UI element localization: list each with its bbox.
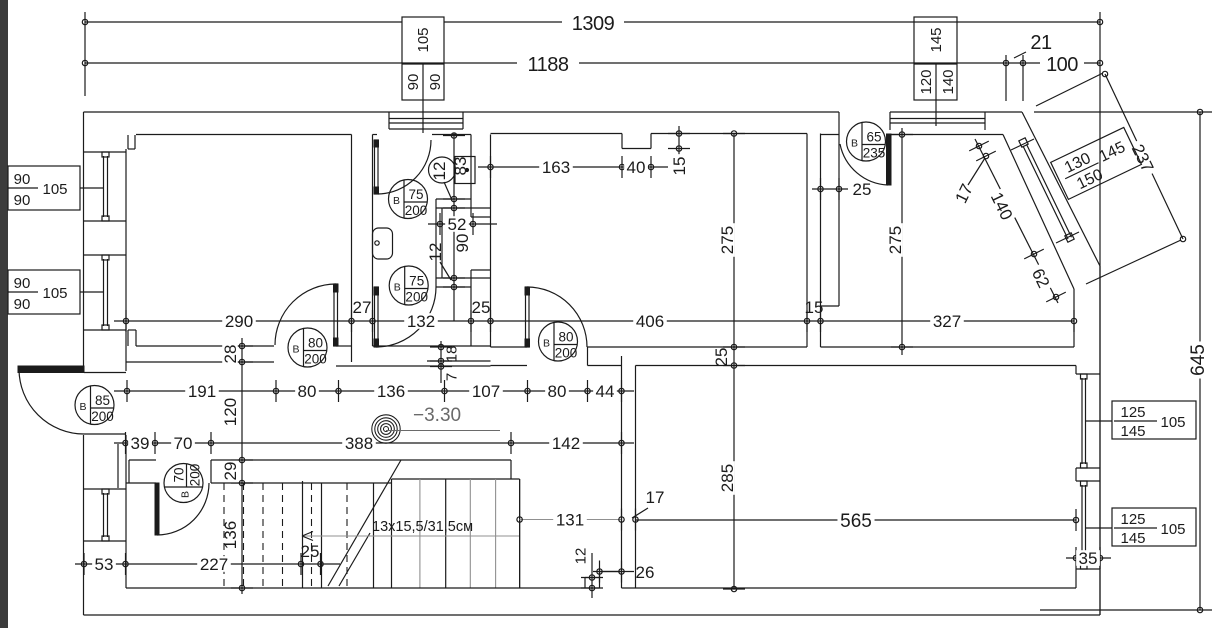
door B80-2 leaf	[526, 287, 530, 347]
diagonal window glazing	[1023, 146, 1068, 239]
svg-text:25: 25	[853, 180, 872, 199]
door label B75/200 upper	[389, 180, 428, 219]
door label B65/235	[847, 122, 886, 161]
wash niche walls	[436, 198, 471, 200]
svg-text:105: 105	[415, 27, 432, 52]
sink	[373, 228, 393, 259]
corridor west wall x=587.5 jamb	[587, 347, 589, 366]
svg-text:27: 27	[353, 298, 372, 317]
svg-text:70: 70	[172, 467, 187, 482]
corridor east walls	[621, 356, 623, 588]
dims 18/7 at x=441	[440, 341, 442, 383]
outer wall diagonal NE	[1022, 112, 1100, 266]
svg-text:80: 80	[548, 382, 567, 401]
svg-text:120: 120	[221, 398, 240, 426]
svg-text:44: 44	[596, 382, 615, 401]
bottom-right room top inner face	[636, 365, 1077, 367]
wall niche line at hall SW	[117, 444, 119, 488]
outer wall right	[1099, 266, 1101, 615]
svg-text:145: 145	[1120, 530, 1145, 547]
dim 275 right room	[901, 128, 903, 355]
dim 15 vertical at notch	[678, 126, 680, 158]
stair landing solid treads	[302, 481, 304, 588]
middle room west face	[490, 135, 492, 348]
right window 1	[1076, 373, 1100, 375]
top-center window label box 105/90/90	[402, 17, 444, 100]
door label B70/200 rotated	[164, 464, 203, 503]
room1 top inner face	[136, 134, 352, 136]
svg-text:12: 12	[430, 162, 449, 181]
stair walking line with arrow	[302, 535, 520, 537]
room1 south wall faces + door opening	[136, 345, 274, 347]
middle room south wall faces	[491, 346, 528, 348]
outer wall left lower	[83, 435, 85, 615]
dim 12 pier	[591, 553, 593, 598]
label 1188	[517, 54, 579, 73]
svg-text:90: 90	[14, 192, 31, 209]
outer wall top	[84, 111, 840, 113]
svg-text:28: 28	[221, 345, 240, 364]
svg-text:B: B	[79, 401, 86, 413]
svg-text:85: 85	[95, 393, 110, 408]
dim line 1309	[85, 21, 402, 23]
svg-text:90: 90	[14, 296, 31, 313]
leader line box1 to window	[80, 187, 103, 189]
left wall inner face	[125, 149, 127, 371]
svg-text:B: B	[851, 138, 858, 150]
svg-text:140: 140	[940, 69, 957, 94]
svg-text:105: 105	[42, 181, 67, 198]
svg-text:17: 17	[646, 488, 665, 507]
hall dim chain 191/80/136/107/80/44 y=391	[114, 390, 634, 392]
svg-text:25: 25	[712, 348, 731, 367]
middle room east wall (15cm)	[806, 134, 808, 348]
vertical dim chain 28/120/29/136 x=242	[241, 338, 243, 594]
diagonal window sills	[1011, 139, 1034, 150]
door B75-upper leaf	[375, 140, 379, 194]
svg-text:65: 65	[866, 130, 881, 145]
dim 237 diagonal	[1105, 74, 1183, 239]
inner diagonal wall face NE	[1003, 135, 1074, 290]
svg-text:35: 35	[1079, 549, 1098, 568]
svg-text:227: 227	[200, 555, 228, 574]
svg-text:−3.30: −3.30	[413, 405, 461, 426]
svg-text:145: 145	[1120, 423, 1145, 440]
svg-text:285: 285	[718, 464, 737, 492]
svg-text:15: 15	[670, 157, 689, 176]
svg-text:90: 90	[427, 74, 444, 91]
svg-text:105: 105	[42, 285, 67, 302]
door B65 leaf	[887, 134, 892, 185]
svg-text:26: 26	[636, 563, 655, 582]
connector box to wall	[422, 100, 424, 133]
dim 35	[1066, 557, 1111, 559]
svg-text:125: 125	[1120, 404, 1145, 421]
svg-text:275: 275	[886, 226, 905, 254]
svg-text:200: 200	[188, 464, 203, 487]
ext lines for 645	[1034, 111, 1212, 113]
svg-text:275: 275	[718, 226, 737, 254]
door B80-1 leaf	[334, 284, 338, 346]
jambs and step at stair wall	[128, 460, 130, 483]
hall dim chain 39/70/388/142 y=443	[114, 442, 634, 444]
notch at room1 NW corner	[127, 135, 129, 149]
svg-text:70: 70	[174, 434, 193, 453]
svg-text:136: 136	[377, 382, 405, 401]
door B70 leaf	[155, 483, 159, 535]
svg-text:B: B	[394, 282, 401, 294]
notch at room1 SW corner	[128, 329, 136, 331]
dim 163/40 line	[478, 166, 668, 168]
svg-text:290: 290	[225, 312, 253, 331]
outer wall bottom	[84, 614, 1101, 616]
svg-text:327: 327	[933, 312, 961, 331]
stair flight 1 dashed treads	[223, 483, 225, 588]
dim 565 y=520	[636, 519, 1077, 521]
svg-text:1188: 1188	[527, 54, 568, 76]
bath south walls	[373, 345, 491, 347]
stair east face	[519, 479, 521, 588]
svg-text:200: 200	[405, 203, 428, 218]
leader window to box2	[1086, 527, 1112, 529]
svg-text:406: 406	[636, 312, 664, 331]
toilet tank	[455, 157, 475, 184]
middle room top inner face + notch	[491, 133, 623, 135]
left label box 1 (90/90 105)	[8, 166, 80, 210]
svg-text:25: 25	[301, 542, 320, 561]
svg-text:90: 90	[14, 275, 31, 292]
svg-text:235: 235	[863, 146, 886, 161]
svg-text:100: 100	[1046, 54, 1078, 76]
wall hall/stairs south face	[211, 482, 392, 484]
top wall window over entrance (105)	[389, 118, 463, 120]
dim 52 horizontal	[428, 223, 497, 225]
bath vertical dim chain 83/12/90/12	[453, 133, 455, 321]
toilet bowl	[429, 157, 456, 183]
outer wall left upper	[83, 112, 85, 371]
dim chain 17/140/62 along diagonal	[975, 139, 1058, 303]
svg-text:25: 25	[472, 298, 491, 317]
svg-text:200: 200	[91, 409, 114, 424]
dim 285 bottom-right room	[719, 461, 735, 495]
level underline	[386, 430, 500, 432]
ext vertical right boundary x=1100	[1099, 12, 1101, 615]
rotated label box 130/150 145	[1051, 127, 1142, 199]
label 100	[1040, 54, 1084, 73]
svg-text:80: 80	[558, 330, 573, 345]
wall hall/stairs north face	[129, 459, 156, 461]
svg-text:388: 388	[345, 434, 373, 453]
svg-text:105: 105	[1160, 414, 1185, 431]
vestibule east wall x=471	[470, 135, 472, 218]
svg-text:B: B	[180, 491, 192, 498]
svg-text:200: 200	[304, 352, 327, 367]
door B65 swing arc	[840, 144, 888, 185]
diagonal window end caps	[1019, 138, 1028, 147]
left label box 2 (90/90 105)	[8, 270, 80, 314]
dim 275 middle room	[733, 133, 735, 589]
right room west stub wall 25	[838, 135, 840, 307]
left wall window 1	[84, 151, 126, 153]
svg-text:142: 142	[552, 434, 580, 453]
right label box 1 (125/145 105)	[1112, 401, 1196, 439]
door B75-upper swing arc	[378, 140, 431, 194]
scanned page dark edge strip	[0, 0, 8, 628]
door B85 swing arc	[19, 369, 84, 434]
svg-text:645: 645	[1188, 344, 1209, 376]
svg-text:B: B	[393, 195, 400, 207]
svg-text:15: 15	[805, 298, 824, 317]
svg-text:191: 191	[188, 382, 216, 401]
svg-text:B: B	[543, 338, 550, 350]
svg-text:90: 90	[453, 234, 472, 253]
svg-text:200: 200	[405, 290, 428, 305]
svg-text:107: 107	[472, 382, 500, 401]
leader line box2 to window	[80, 291, 103, 293]
level mark spiral	[384, 427, 389, 432]
stair break line	[328, 460, 401, 586]
door B70 swing arc	[157, 483, 209, 535]
svg-text:40: 40	[627, 158, 646, 177]
svg-text:83: 83	[451, 157, 470, 176]
svg-text:131: 131	[556, 511, 584, 530]
svg-text:80: 80	[298, 382, 317, 401]
dim 142 gray 131 line y=519.5	[520, 519, 622, 521]
svg-text:200: 200	[555, 346, 578, 361]
door label B80/200 room1	[288, 328, 327, 367]
svg-text:52: 52	[448, 215, 467, 234]
door B85 leaf (open)	[18, 366, 84, 373]
svg-text:53: 53	[95, 555, 114, 574]
svg-text:12: 12	[572, 548, 589, 565]
dim line 645 vertical	[1199, 112, 1201, 610]
left wall window 2	[84, 254, 126, 256]
svg-text:7: 7	[443, 373, 460, 381]
dim 26 pier	[593, 571, 634, 573]
svg-text:75: 75	[409, 274, 424, 289]
niche side passages	[471, 216, 491, 218]
svg-text:39: 39	[131, 434, 150, 453]
dim chain 290/27/132/25/406/15/327 at y=321	[114, 320, 1074, 322]
stair flight 2 treads	[346, 483, 348, 588]
door B65 jamb	[838, 112, 840, 135]
svg-text:21: 21	[1030, 32, 1052, 54]
svg-text:75: 75	[408, 187, 423, 202]
svg-text:105: 105	[1160, 521, 1185, 538]
door B75-lower swing arc	[376, 287, 436, 347]
top-right window label box 145/120/140	[914, 17, 957, 100]
svg-text:B: B	[292, 344, 299, 356]
vestibule top inner face pieces	[432, 134, 471, 136]
label 1309	[562, 13, 624, 32]
pier at corridor bottom	[600, 571, 622, 573]
svg-text:565: 565	[840, 511, 872, 532]
svg-text:80: 80	[308, 336, 323, 351]
svg-text:163: 163	[542, 158, 570, 177]
svg-text:12: 12	[426, 243, 445, 262]
svg-text:132: 132	[407, 312, 435, 331]
right label box 2 (125/145 105)	[1112, 508, 1196, 546]
ext lines for 237	[1036, 73, 1103, 106]
svg-text:1309: 1309	[572, 13, 615, 35]
top-right window (890-985)	[890, 118, 985, 120]
svg-text:145: 145	[928, 27, 945, 52]
svg-text:125: 125	[1120, 511, 1145, 528]
svg-text:13x15,5/31,5cм: 13x15,5/31,5cм	[372, 519, 473, 535]
room1 east wall faces (bathroom west wall)	[351, 135, 353, 363]
right window 2	[1076, 480, 1100, 482]
door B85 jamb lines	[84, 372, 126, 374]
inner faces right: vertical + horizontal	[1073, 289, 1075, 347]
left wall window 3 (bottom-left room)	[84, 488, 126, 490]
ext lines for 21/100	[1005, 55, 1007, 101]
door B80-1 swing arc	[275, 284, 336, 345]
door label B80/200 hall	[539, 322, 578, 361]
svg-text:90: 90	[405, 74, 422, 91]
leader window to box1	[1086, 420, 1112, 422]
door label B85/200	[75, 386, 114, 425]
svg-text:90: 90	[14, 171, 31, 188]
dim 25 at entrance stub	[812, 188, 848, 190]
door label B75/200 lower	[389, 266, 428, 305]
ext line left top	[84, 12, 86, 96]
connector box to wall	[935, 100, 937, 126]
stair upper treads box	[392, 478, 520, 480]
svg-text:120: 120	[918, 69, 935, 94]
door B80-2 swing arc	[527, 287, 587, 347]
right room top inner face	[890, 134, 1003, 136]
bottom wall inner face	[126, 587, 600, 589]
svg-text:18: 18	[443, 346, 460, 363]
door B75-lower leaf	[375, 287, 379, 347]
dim line 1188 / 21 / 100	[85, 62, 1100, 64]
dim chain 53/227/25 y=564	[75, 563, 340, 565]
svg-text:29: 29	[221, 462, 240, 481]
right wall of bottom-right room with windows	[1075, 366, 1077, 375]
